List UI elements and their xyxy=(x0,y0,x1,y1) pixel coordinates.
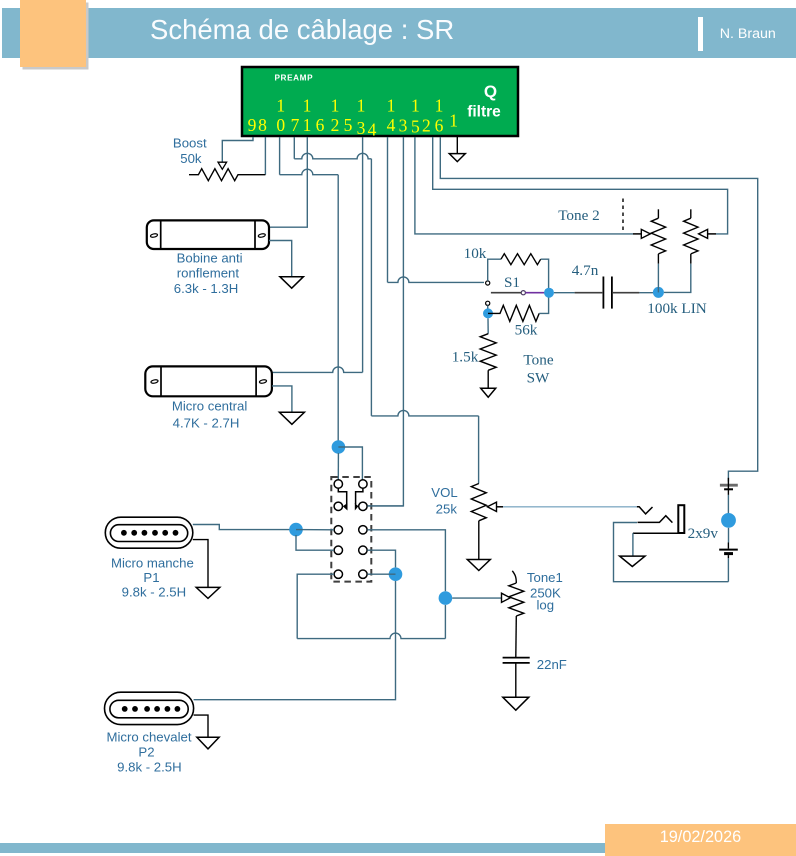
footer date box xyxy=(605,824,796,856)
preamp U1 Q filtre xyxy=(242,67,518,136)
ground middle pickup xyxy=(279,412,304,424)
potentiometer VOL 25k (track) xyxy=(471,484,486,521)
wire D2 to row4L xyxy=(296,535,334,550)
wire P1 ground stub xyxy=(193,540,208,588)
svg-text:6: 6 xyxy=(435,116,444,136)
preamp pin numbers bottom row xyxy=(248,111,458,140)
ground VOL xyxy=(467,560,490,571)
Tone1 top stub xyxy=(512,571,516,583)
wire P2 output to D3 vertical xyxy=(194,581,396,700)
node D1 junction xyxy=(332,440,346,454)
capacitor 22nF xyxy=(503,658,530,663)
svg-text:9: 9 xyxy=(248,115,257,135)
svg-text:25k: 25k xyxy=(436,501,458,516)
jack ring contact xyxy=(638,516,673,523)
svg-text:1: 1 xyxy=(303,96,312,116)
wire node to B2 xyxy=(728,528,730,543)
wire Tone2 right bottom to D5 xyxy=(690,254,692,264)
svg-text:Micro chevalet: Micro chevalet xyxy=(106,730,191,745)
label Bobine anti ronflement 6.3k - 1.3H xyxy=(174,250,243,296)
svg-text:Tone1: Tone1 xyxy=(527,570,563,585)
wire 22nF to ground xyxy=(515,663,517,697)
wire B1 to battery node xyxy=(727,495,729,515)
svg-text:Tone: Tone xyxy=(523,352,553,369)
node D4 junction xyxy=(439,591,453,605)
svg-text:8: 8 xyxy=(258,115,267,135)
Tone2 right wiper arrow xyxy=(699,229,708,238)
svg-text:1.5k: 1.5k xyxy=(452,349,479,366)
svg-text:22nF: 22nF xyxy=(537,657,567,672)
wire pin3 to Tone2 right wiper xyxy=(433,137,728,234)
svg-text:3: 3 xyxy=(399,116,408,136)
svg-text:2: 2 xyxy=(331,115,340,135)
ground preamp xyxy=(449,154,465,162)
label Tone1 250K log xyxy=(527,570,563,612)
Tone2 right wiper lead xyxy=(708,233,716,235)
label Micro manche P1 9.8k - 2.5H xyxy=(111,556,194,600)
node S1 top contact xyxy=(486,281,490,285)
svg-text:2x9v: 2x9v xyxy=(688,525,719,542)
wire middle pickup ground stub xyxy=(272,386,292,412)
VOL wiper arrow xyxy=(487,502,496,511)
svg-text:1: 1 xyxy=(303,115,312,135)
wire VOL wiper to jack tip xyxy=(503,506,637,508)
ground P2 xyxy=(197,737,219,749)
potentiometer Tone2 right 100k LIN (track) xyxy=(684,218,698,254)
svg-text:Micro manche: Micro manche xyxy=(111,556,194,571)
pickup Micro manche P1 xyxy=(105,517,193,548)
wire pin7 to hum-canceling coil xyxy=(269,137,307,227)
node S1 bottom contact xyxy=(486,301,490,305)
header orange square xyxy=(20,0,86,67)
wire Tone2 left bottom to D5 xyxy=(657,254,659,264)
wire jack sleeve to ground xyxy=(632,533,634,556)
node D2 junction xyxy=(289,523,303,537)
svg-text:Boost: Boost xyxy=(173,135,207,150)
wire pin9 to boost wiper xyxy=(222,137,253,162)
svg-text:9.8k - 2.5H: 9.8k - 2.5H xyxy=(117,759,182,774)
wire capacitor to node D5 xyxy=(613,292,639,294)
svg-text:1: 1 xyxy=(411,96,420,116)
svg-text:4.7K - 2.7H: 4.7K - 2.7H xyxy=(173,416,240,431)
Tone2 right top stub xyxy=(690,209,692,218)
ground jack xyxy=(620,556,645,566)
svg-text:56k: 56k xyxy=(515,322,538,339)
svg-text:5: 5 xyxy=(411,117,420,137)
node battery junction xyxy=(721,513,736,528)
wire 1.5k to ground xyxy=(487,370,489,388)
label Micro chevalet P2 9.8k - 2.5H xyxy=(106,730,191,775)
resistor Boost 50k xyxy=(189,169,265,181)
resistor 10k xyxy=(501,254,541,265)
wire coil ground stub xyxy=(269,241,292,277)
svg-text:P1: P1 xyxy=(143,570,159,585)
pickup Micro central xyxy=(145,366,272,396)
battery B2 (bottom 9v) xyxy=(719,543,738,554)
svg-text:P2: P2 xyxy=(138,744,154,759)
svg-text:SW: SW xyxy=(527,370,550,387)
wire row4R to D3 xyxy=(367,550,395,567)
svg-text:1: 1 xyxy=(357,96,366,116)
wire D1 to row1R xyxy=(338,447,362,480)
svg-text:7: 7 xyxy=(291,115,300,135)
svg-text:2: 2 xyxy=(422,116,431,136)
svg-text:3: 3 xyxy=(357,118,366,138)
wire S1 common to node (violet) xyxy=(525,292,549,294)
ground coil xyxy=(280,277,304,289)
node S1 common contact xyxy=(521,291,525,295)
svg-text:1: 1 xyxy=(331,96,340,116)
preamp pin numbers tens row xyxy=(276,96,443,116)
wire P2 ground stub xyxy=(194,715,208,737)
lever switch blade left xyxy=(338,488,346,504)
lever switch (5-way) outline xyxy=(331,477,371,582)
wire pin11 to VOL top xyxy=(293,137,295,159)
Tone2 left wiper arrow xyxy=(641,229,650,238)
wire D6 to capacitor 4.7n xyxy=(554,292,575,294)
header author N. Braun xyxy=(720,27,776,41)
svg-text:Bobine anti: Bobine anti xyxy=(177,250,243,265)
wire row5R to D3 xyxy=(367,573,395,575)
label VOL 25k xyxy=(431,485,457,516)
wire D7 to 1.5k xyxy=(487,318,489,333)
wire 10k to node D6 xyxy=(541,259,549,293)
jack sleeve contact xyxy=(633,532,684,534)
wire pin12 to middle pickup xyxy=(362,137,364,372)
wire row2R to pin4 vertical xyxy=(367,505,403,507)
svg-text:log: log xyxy=(536,598,554,613)
footer date text xyxy=(660,829,742,846)
ground 22nF xyxy=(503,697,529,710)
wire S1 bottom contact to node D7 xyxy=(487,305,489,313)
Tone1 wiper arrow xyxy=(502,593,511,602)
wire 56k to node D6 xyxy=(539,293,548,314)
wire pin14 to Tone2 left wiper xyxy=(415,137,633,234)
jack body xyxy=(678,505,684,533)
wire D4 to Tone1 wiper xyxy=(452,597,501,599)
wire VOL bottom to ground xyxy=(478,521,480,560)
label Micro central 4.7K - 2.7H xyxy=(172,399,248,431)
svg-text:1: 1 xyxy=(435,96,444,116)
wire Tone1 bottom to 22nF xyxy=(515,616,518,657)
ground P1 xyxy=(196,587,220,598)
potentiometer Tone2 left (track) xyxy=(651,218,665,254)
lever switch blade right xyxy=(356,488,363,504)
svg-text:Tone 2: Tone 2 xyxy=(558,207,600,224)
svg-text:0: 0 xyxy=(276,115,285,135)
svg-text:1: 1 xyxy=(276,96,285,116)
wire P1 output to node D2 xyxy=(193,525,296,530)
wire row5L loop to Tone1 feed xyxy=(297,574,334,638)
pickup Micro chevalet P2 xyxy=(105,692,194,724)
node D7 xyxy=(483,308,493,318)
label Tone SW xyxy=(523,352,553,387)
Tone2 left wiper lead xyxy=(633,233,641,235)
svg-text:50k: 50k xyxy=(180,151,202,166)
battery B1 (top 9v) xyxy=(720,478,738,495)
svg-text:6.3k - 1.3H: 6.3k - 1.3H xyxy=(174,281,239,296)
Tone2 left top stub xyxy=(657,209,659,218)
wire pin13 to switch S1 xyxy=(387,137,389,282)
wire pin16 to ground xyxy=(456,137,458,154)
wire D2 to row3L xyxy=(296,529,334,531)
svg-text:S1: S1 xyxy=(504,274,520,291)
inductor Bobine anti ronflement xyxy=(147,220,269,249)
svg-text:4: 4 xyxy=(387,115,396,135)
header bar xyxy=(2,8,796,58)
capacitor 4.7n xyxy=(603,277,612,309)
svg-text:PREAMP: PREAMP xyxy=(275,74,314,83)
svg-text:Micro central: Micro central xyxy=(172,399,248,414)
jack tip contact xyxy=(637,507,653,514)
footer bar xyxy=(0,843,605,853)
wire S1 top contact to 10k xyxy=(488,259,501,281)
wire pin4 to lever switch row2R xyxy=(367,137,403,506)
resistor 1.5k xyxy=(480,334,496,371)
potentiometer Tone1 250K log (track) xyxy=(509,583,524,616)
svg-text:100k LIN: 100k LIN xyxy=(647,300,707,317)
label Boost 50k xyxy=(173,135,207,166)
header title xyxy=(150,14,454,45)
svg-text:ronflement: ronflement xyxy=(177,265,240,280)
wire D1 to row1L xyxy=(337,453,339,480)
wire pin8 to boost resistor xyxy=(264,137,266,175)
boost wiper arrow xyxy=(218,162,227,169)
wire battery loop to jack ring xyxy=(614,523,729,582)
dashed divider xyxy=(622,199,624,232)
switch S1 arm xyxy=(491,292,521,294)
wire pin10 to switch node (via dot D1) xyxy=(279,137,281,175)
lever switch contacts xyxy=(334,480,367,579)
node D6 junction xyxy=(544,288,554,298)
svg-text:VOL: VOL xyxy=(431,485,457,500)
svg-text:5: 5 xyxy=(344,115,353,135)
svg-text:filtre: filtre xyxy=(467,104,501,121)
node D5 junction xyxy=(653,287,664,298)
svg-text:Q: Q xyxy=(484,82,497,101)
wire row3R to node D4 xyxy=(367,530,445,592)
wire B2 minus down xyxy=(727,555,729,558)
svg-text:1: 1 xyxy=(387,96,396,116)
svg-text:4: 4 xyxy=(368,120,377,140)
wire pin15 to battery plus xyxy=(440,137,757,482)
ground 1.5k xyxy=(481,388,496,397)
svg-text:10k: 10k xyxy=(464,245,487,262)
svg-text:1: 1 xyxy=(449,111,458,131)
node D3 junction xyxy=(389,567,403,581)
svg-text:6: 6 xyxy=(316,115,325,135)
svg-text:9.8k - 2.5H: 9.8k - 2.5H xyxy=(122,585,187,600)
svg-text:4.7n: 4.7n xyxy=(572,262,599,279)
header separator xyxy=(698,17,703,51)
resistor 56k xyxy=(488,305,539,321)
VOL wiper lead xyxy=(497,506,504,508)
